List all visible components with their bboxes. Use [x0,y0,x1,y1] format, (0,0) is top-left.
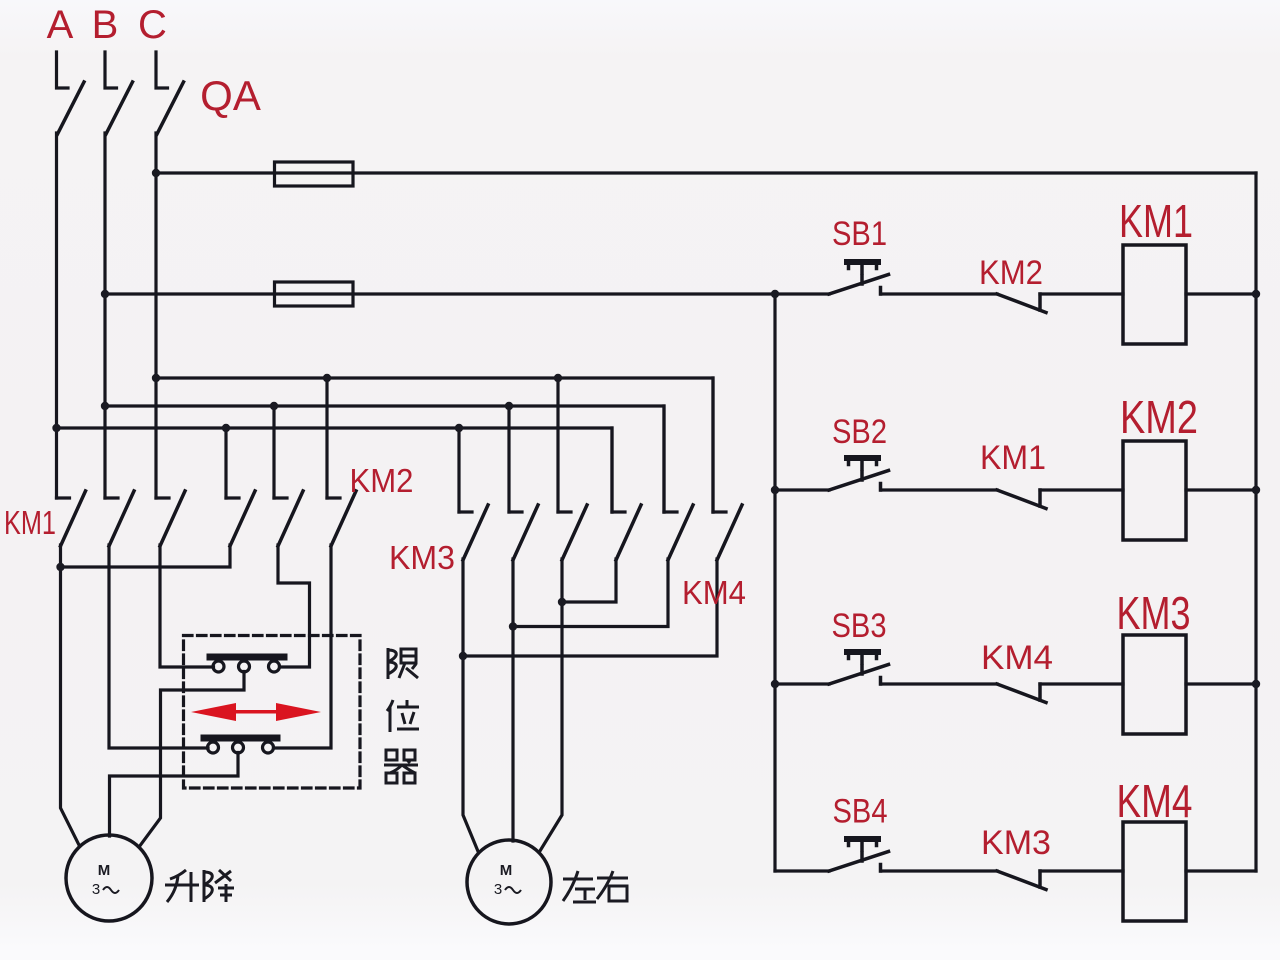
red travel arrow [191,703,321,721]
contactor KM4 main contact 1 [612,510,625,513]
svg-text:M: M [98,862,111,879]
pushbutton SB4 [829,839,889,871]
svg-text:KM1: KM1 [980,439,1046,477]
contactor KM4 contact stubs [610,428,613,512]
wire SQ upper common out [139,672,244,848]
svg-text:KM3: KM3 [981,824,1051,862]
fuse FU2 [275,282,354,306]
label zuo (left) [563,871,596,902]
motor M2 sine [505,887,521,893]
wire KM2 contact3 top stub [325,378,328,498]
contactor KM2 main contact 2 [274,496,287,499]
contactor KM3 main contact 3 [558,510,571,513]
svg-text:KM3: KM3 [389,539,455,576]
label qi [384,750,418,783]
label xian [388,648,418,679]
wire tie KM1out-KM2out phase A [61,545,231,567]
limit switch SQ upper terminal circles [213,661,224,672]
knife switch QA pole B blade [106,82,133,134]
wire control row1 bus L2 [105,292,829,295]
coil KM1 [1123,245,1186,344]
contactor KM4 main contact 3 [713,510,726,513]
wire KM2 contact1 top stub [224,428,227,498]
knife switch QA pole A fixed contact [57,52,69,88]
wire KM1 phase A output to motor [61,545,80,845]
svg-text:KM2: KM2 [979,254,1043,292]
wire distribution bus C phase [156,378,713,512]
wire KM2 phase C output down [274,545,332,748]
label sheng (rise) [165,870,199,902]
motor M2 circle [467,840,551,924]
wire KM2 phase B output jog [278,545,310,667]
wire phase C vertical [154,133,157,498]
svg-text:KM3: KM3 [1117,587,1191,639]
contactor KM4 main contact 2 [664,510,677,513]
wire tie KM4 out1 [562,559,616,602]
wire tie KM4 out3 [463,559,717,656]
svg-text:3: 3 [494,881,502,898]
svg-text:QA: QA [200,72,261,119]
label jiang (fall) [204,870,234,902]
wire KM1 phase B output down [109,545,208,748]
wire SQ lower common out [110,753,239,837]
wire KM2 contact2 top stub [272,406,275,498]
label you (right) [597,871,628,901]
control row4 segments [775,869,829,872]
svg-text:KM2: KM2 [350,462,414,499]
svg-text:KM4: KM4 [981,639,1053,677]
pushbutton SB2 [829,458,889,490]
fuse FU1 [275,162,354,186]
wire KM1 phase C output down [160,545,214,667]
wire right rail [1254,173,1257,871]
contactor KM3 main contact 2 [509,510,522,513]
svg-text:C: C [138,3,167,47]
contactor KM1 main contact 3 [156,496,169,499]
wire distribution bus A phase [57,428,613,512]
control row1 segments [881,292,997,295]
motor M1 sine [103,887,119,893]
motor M1 circle [66,835,152,921]
wire left control rail [773,294,776,871]
wire KM3 out3 to motor2 right [539,559,562,853]
svg-text:SB3: SB3 [832,607,887,645]
wire phase B vertical [103,133,106,498]
control row2 segments [775,488,829,491]
wire tie KM4 out2 [513,559,668,627]
wire KM3 out2 to motor2 mid [511,559,514,841]
coil KM2 [1123,441,1186,540]
limit switch SQ lower bar [204,735,277,742]
svg-text:KM2: KM2 [1120,391,1198,443]
svg-text:A: A [47,3,74,47]
svg-text:SB4: SB4 [833,793,888,831]
contactor KM2 main contact 3 [327,496,340,499]
svg-text:KM4: KM4 [682,574,746,611]
knife switch QA pole B fixed contact [105,52,117,88]
svg-text:SB2: SB2 [832,413,887,451]
svg-text:KM1: KM1 [1119,195,1193,247]
chinese labels drawn as strokes [165,648,628,902]
knife switch QA pole C fixed contact [156,52,168,88]
svg-text:B: B [92,3,119,47]
svg-text:KM1: KM1 [4,504,56,541]
svg-text:3: 3 [92,881,100,898]
limit switch box dashed [184,636,361,789]
control row3 segments [775,682,829,685]
knife switch QA pole A blade [58,82,85,134]
pushbutton SB3 [829,652,889,684]
label wei [387,700,419,732]
svg-text:KM4: KM4 [1117,775,1193,827]
coil KM3 [1123,635,1186,734]
limit switch SQ upper bar [210,654,284,661]
contactor KM3 main contact 1 [459,510,472,513]
NC aux contact KM1 row2 [997,490,1046,509]
wire distribution bus B phase [105,406,664,512]
pushbutton SB1 [829,262,889,294]
svg-text:M: M [500,862,513,879]
NC aux contact KM3 row4 [997,871,1046,890]
wire phase A vertical [55,133,58,498]
contactor KM1 main contact 2 [105,496,118,499]
NC aux contact KM2 row1 [997,294,1046,313]
wire top bus L3 to right rail [156,171,1256,174]
contactor KM2 main contact 1 [226,496,239,499]
contactor KM1 main contact 1 [57,496,70,499]
wire KM3 out1 to motor2 left [463,559,479,853]
knife switch QA pole C blade [157,82,184,134]
contactor KM3 contact stubs [457,428,460,512]
svg-text:SB1: SB1 [832,215,887,253]
coil KM4 [1123,822,1186,921]
NC aux contact KM4 row3 [997,684,1046,703]
limit switch SQ lower terminal circles [208,742,219,753]
